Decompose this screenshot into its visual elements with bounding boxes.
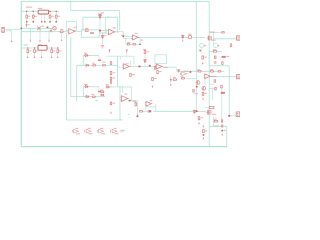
label R41 — [200, 117, 203, 118]
capacitor C6 — [214, 79, 216, 82]
junction zener node — [99, 30, 101, 32]
label R47 — [113, 103, 116, 104]
resistor R5 — [60, 31, 64, 33]
label RV1 — [41, 26, 44, 27]
junction net A2 — [47, 27, 49, 29]
gray text note3 — [128, 113, 130, 116]
diode D11 — [193, 110, 195, 114]
op-amp U6 — [120, 96, 129, 102]
resistor R13 — [49, 15, 51, 19]
transistor Q3 — [202, 86, 206, 90]
wire J1 lower lead — [6, 30, 12, 32]
wire rblock left — [208, 51, 210, 65]
wire meter drop — [201, 48, 203, 51]
wire bottom box right — [226, 126, 228, 146]
resistor R12 — [213, 51, 217, 53]
wire inner box bottom — [99, 32, 105, 34]
label U9A bottom — [76, 133, 80, 134]
wire r145 drop — [144, 55, 146, 59]
wire mixbox1 left — [82, 56, 84, 66]
label bottom teal text — [214, 125, 220, 126]
net arrow bus2 4 — [57, 56, 59, 58]
label D1 — [101, 12, 104, 13]
resistor network RN2 — [38, 45, 47, 50]
label rail71 — [183, 71, 189, 72]
junction opamp4 out — [139, 66, 141, 68]
mosfet Q1 — [207, 36, 212, 41]
wire bus2 drop 2 — [34, 48, 36, 56]
resistor R22 — [34, 49, 36, 53]
net arrow R5 — [61, 39, 63, 41]
wire bus2 drop 3 — [51, 48, 53, 56]
resistor R14 — [92, 65, 96, 66]
label Q1 top — [209, 32, 215, 33]
label R23 — [197, 69, 200, 70]
wire v2217 seg — [221, 89, 223, 122]
label R44 — [205, 130, 208, 131]
junction opamp2 out — [123, 35, 125, 37]
gray text note2 — [95, 99, 98, 102]
wire mix feed v76 — [76, 65, 78, 101]
net square bus1 1 — [26, 21, 28, 23]
wire mixbox1 top — [83, 55, 99, 57]
capacitor C1 — [50, 28, 52, 31]
wire opamp3 fb right — [139, 37, 141, 44]
wire mos1 source down — [212, 39, 214, 45]
junction supply — [108, 17, 109, 18]
wire opamp1 feedback loop — [66, 22, 76, 31]
wire v70 to mixer2 — [71, 96, 84, 98]
junction rblock — [228, 115, 230, 117]
wire opamp2 inn feed — [99, 32, 107, 34]
junction bus2 1 — [27, 47, 28, 48]
wire J1 to bus — [6, 28, 21, 30]
label R15 — [103, 62, 106, 63]
wire opamp3 in vertical — [122, 32, 124, 39]
junction bus1 4 — [56, 11, 57, 12]
wire supply drop V70 — [70, 1, 72, 10]
op-amp U4 — [122, 64, 130, 69]
meter M1 — [213, 43, 217, 47]
wire opamp2 in verticals — [106, 29, 108, 34]
junction q — [196, 86, 198, 88]
label U9C top — [100, 128, 103, 129]
wire v137 drop — [137, 101, 139, 116]
wire input drop 3 — [48, 28, 50, 40]
wire v205 seg — [204, 74, 206, 85]
resistor R10 — [221, 32, 224, 33]
wire rblock bottom — [209, 65, 229, 67]
label net out6 teal — [131, 100, 137, 101]
resistor R42 — [214, 120, 219, 122]
label U6 — [124, 94, 127, 95]
wire opamp4 out — [129, 65, 149, 67]
wire opamp8 fb top — [146, 106, 156, 108]
inverter U9D — [111, 129, 118, 133]
label R23 — [53, 50, 56, 51]
wire q area h84 — [209, 83, 214, 85]
net arrow x203 b — [203, 137, 205, 139]
wire left border — [20, 1, 22, 146]
label U9C bottom — [101, 133, 105, 134]
junction x203 — [203, 134, 205, 136]
label Y1 — [188, 34, 191, 35]
net square bus1 3 — [49, 21, 51, 23]
power flag PF1 — [109, 50, 111, 54]
wire opamp4 fb v — [130, 61, 132, 66]
diode D7 — [178, 69, 180, 73]
net arrow x203 a — [203, 125, 205, 127]
label U5 — [164, 67, 168, 68]
net arrow in1 — [30, 40, 32, 42]
label R35 — [204, 93, 207, 94]
wire opamp3 fb left — [125, 39, 127, 45]
resistor R19 — [110, 71, 112, 75]
net arrow x222 — [221, 134, 223, 136]
wire top border — [21, 0, 209, 2]
label R12 — [213, 49, 217, 50]
cap C4 — [98, 60, 101, 62]
label U3 — [135, 33, 138, 34]
label U8 — [150, 100, 153, 101]
junction bus2 3 — [51, 47, 52, 48]
label R5 — [60, 29, 63, 30]
label left block — [180, 76, 183, 77]
wire opamp7 out — [210, 76, 236, 78]
label R12 — [34, 16, 37, 17]
wire opamp6 out — [128, 100, 138, 102]
wire r111 lead — [110, 84, 112, 87]
junction bus2 4 — [57, 47, 58, 48]
resistor R28 — [110, 80, 111, 83]
wire bus1 — [21, 10, 59, 12]
zener diode D1 — [99, 15, 101, 19]
label U7 — [211, 76, 216, 77]
label R31 — [133, 101, 136, 102]
wire opamp1 out — [77, 30, 82, 32]
wire mos1 out to J2 — [213, 38, 236, 40]
label U9A top — [75, 128, 78, 129]
label R27 — [112, 78, 115, 79]
junction bus2 2 — [34, 47, 35, 48]
inverter U9A — [72, 129, 79, 133]
resistor R35 — [202, 92, 204, 96]
label R24 — [59, 50, 62, 51]
wire mos1 drain — [212, 32, 214, 39]
connector J3 — [236, 112, 240, 117]
resistor R43 — [221, 120, 222, 123]
resistor R33 — [173, 79, 177, 81]
wire J1 lower drop — [11, 31, 13, 40]
label R46 — [132, 74, 135, 75]
op-amp U7 — [204, 74, 212, 79]
diode D2 — [101, 35, 103, 39]
resistor R18 — [110, 61, 112, 65]
label Q4 — [212, 114, 216, 115]
label R11 — [28, 16, 31, 17]
net square bus1 b5 — [41, 21, 42, 22]
wire v2125 seg2 — [213, 117, 215, 126]
resistor R47 — [110, 102, 112, 106]
op-amp U2 — [107, 29, 115, 35]
label header text — [26, 7, 33, 8]
resistor R23 — [198, 71, 202, 73]
resistor R13 — [222, 62, 223, 65]
wire mix2 out rail — [110, 86, 132, 88]
wire mos2 top rail — [205, 107, 209, 109]
wire m2 chain — [200, 51, 202, 53]
wire opamp8 in — [143, 110, 148, 112]
wire mixbox2 top — [83, 86, 99, 88]
wire bottom border — [21, 146, 227, 148]
wire mixbox1 right — [98, 56, 100, 59]
wire opamp6 box l — [119, 86, 121, 120]
label R22 — [159, 71, 162, 72]
label RN1 — [38, 8, 43, 9]
resistor R9 — [133, 44, 137, 45]
resistor R38 — [202, 55, 204, 59]
inverter U9C — [97, 129, 104, 133]
label U9B top — [88, 128, 91, 129]
label U4 — [126, 63, 129, 64]
wire supply rail H10 — [71, 10, 120, 12]
resistor R22 — [157, 70, 159, 74]
resistor R46 — [130, 73, 132, 77]
wire box rail right v — [133, 56, 135, 64]
net arrow bus2 mid — [41, 56, 43, 58]
buzzer LS1 cross — [53, 27, 55, 29]
wire vertical net V196 — [195, 1, 197, 111]
relay coil K2 — [221, 92, 225, 94]
label RN2 — [38, 44, 41, 45]
junction rail111 — [196, 111, 198, 113]
resistor R20 — [144, 50, 146, 54]
label R42 — [214, 119, 217, 120]
resistor R24 — [210, 71, 214, 73]
resistor R37 — [221, 85, 223, 89]
resistor R23 — [51, 49, 53, 53]
junction bus1 1 — [26, 11, 27, 12]
junction opamp8 — [149, 111, 150, 112]
wire R5 drop — [61, 33, 63, 39]
wire opamp1 input — [21, 31, 68, 33]
label K1 — [226, 56, 229, 57]
transistor Q2 — [196, 81, 200, 85]
resistor R25 — [218, 71, 222, 72]
net square bus1 4 — [55, 21, 57, 23]
resistor R7 — [90, 32, 94, 33]
label D2 — [104, 35, 107, 36]
wire rblock to J3 — [229, 115, 236, 117]
net arrow M1 — [218, 45, 220, 47]
resistor R12 — [32, 15, 34, 19]
wire rblock top — [209, 50, 222, 52]
buzzer LS1 — [53, 27, 56, 30]
cap C5 — [98, 91, 101, 93]
label R21 — [29, 50, 32, 51]
wire big box left — [65, 33, 67, 120]
wire inner rail left down — [82, 17, 84, 31]
label D4 — [84, 53, 87, 54]
wire rail y71 — [177, 70, 224, 72]
wire q cluster feed — [186, 77, 196, 79]
wire opamp3 feed2 — [123, 37, 132, 39]
wire box rail top — [106, 55, 134, 57]
connector J2 — [237, 36, 240, 40]
wire opamp4 in2 — [118, 66, 122, 68]
wire bus2 box drop — [41, 50, 43, 56]
wire opamp2 out — [115, 31, 123, 33]
label R26 — [92, 94, 95, 95]
resistor R24 — [57, 49, 59, 53]
wire opamp5 out — [163, 66, 177, 68]
junction net A — [21, 28, 22, 29]
net square bus1 2 — [33, 21, 35, 23]
resistor R40 — [148, 111, 152, 113]
wire bus2 drop 1 — [27, 48, 29, 56]
capacitor C7 — [222, 125, 223, 128]
label R19 — [113, 72, 116, 73]
resistor R41 — [198, 116, 200, 120]
diode D8 — [84, 85, 89, 87]
wire mix rail y65 — [77, 64, 118, 66]
junction v137 — [137, 115, 139, 117]
resistor R27 — [110, 77, 112, 81]
wire PF2 stub — [126, 53, 128, 56]
connector J4 — [237, 75, 240, 79]
label U9B bottom — [88, 133, 92, 134]
wire input drop 1 — [30, 28, 32, 40]
wire rblock right down — [228, 66, 230, 116]
label R20b — [143, 49, 146, 50]
resistor R34 — [181, 78, 185, 80]
resistor R30 — [101, 94, 104, 95]
wire bus1 box drop a — [41, 14, 43, 22]
resistor R36 — [215, 87, 216, 90]
wire bottom box top — [209, 125, 227, 127]
label R33 — [173, 77, 176, 78]
net arrow R38 — [202, 62, 204, 64]
junction rail71 — [190, 71, 192, 73]
resistor R6 — [85, 30, 89, 32]
wire bus1 drop 4 — [55, 11, 57, 21]
ground GND1 — [101, 46, 104, 48]
label R32 — [154, 78, 157, 79]
net arrow R47 — [110, 112, 112, 114]
resistor R21 — [27, 49, 29, 53]
mosfet Q4 — [206, 110, 211, 115]
net arrow in3 — [48, 40, 50, 42]
resistor R14 — [55, 15, 57, 19]
junction bus1 3 — [49, 11, 50, 12]
resistor R26 — [92, 96, 96, 97]
resistor R11 — [230, 43, 232, 47]
wire v70 long — [70, 37, 72, 97]
wire long rail y111 — [154, 110, 207, 112]
diode D6 — [144, 59, 146, 63]
wire input drop 2 — [39, 28, 41, 40]
wire v131 drop — [131, 87, 133, 100]
label R29 — [100, 90, 103, 91]
wire opamp5 out to rail — [175, 67, 177, 71]
op-amp U1 — [68, 29, 76, 35]
net arrow R32 — [152, 85, 154, 87]
wire input net A — [21, 27, 57, 29]
inverter U9B — [85, 129, 92, 133]
junction x222 — [221, 130, 223, 132]
wire bus1 drop 3 — [49, 11, 51, 21]
resistor R29 — [100, 91, 104, 93]
junction bus1 2 — [33, 11, 34, 12]
junction y80 — [170, 79, 172, 81]
wire bus1 box drop b — [44, 14, 46, 22]
wire opamp6 box bottom — [120, 119, 123, 121]
wire buffer link — [187, 72, 191, 74]
wire opamp5 in — [149, 65, 156, 67]
label R20 — [146, 51, 149, 52]
diode D10 — [106, 86, 111, 88]
label R24 — [210, 69, 213, 70]
resistor R15 — [102, 65, 106, 66]
wire inner rail H17 — [83, 16, 118, 18]
junction opamp6 out — [129, 100, 131, 102]
label D10 — [106, 84, 109, 85]
label U1 — [74, 27, 77, 28]
resistor R44 — [203, 129, 205, 133]
op-amp U8 — [145, 101, 153, 106]
wire opamp4 box left — [117, 56, 119, 88]
diode D9 — [85, 95, 90, 97]
net arrow R41 — [198, 122, 200, 124]
wire rail corner down — [119, 11, 121, 30]
varistor RV1 — [37, 27, 40, 31]
led D12 — [26, 23, 28, 27]
label R38 — [204, 57, 207, 58]
net arrow J1 — [11, 40, 13, 42]
buffer U10 — [180, 72, 187, 76]
label R6 — [85, 28, 88, 29]
wire bus2 drop 4 — [57, 48, 59, 56]
label R8 — [127, 42, 130, 43]
net arrow R35 — [202, 98, 204, 100]
wire mixbox2 left — [82, 87, 84, 97]
resistor network RN1 — [38, 10, 48, 14]
net arrow bus2 2 — [34, 56, 36, 58]
wire mos1 top rail — [209, 31, 224, 33]
wire r145 drop2 — [144, 64, 146, 66]
net arrow bus2 3 — [51, 56, 53, 58]
label net long — [141, 40, 144, 41]
wire bus1 drop 2 — [32, 11, 34, 21]
label U2 — [113, 27, 116, 28]
label R13 — [51, 16, 54, 17]
label R14 — [92, 63, 95, 64]
resistor R11 — [26, 15, 28, 19]
wire right vertical bus — [208, 1, 210, 146]
wire v2125 seg — [212, 88, 214, 101]
label q cluster — [194, 93, 198, 94]
wire mixbox2 right — [98, 87, 100, 91]
wire zener drop — [99, 11, 101, 31]
resistor R31 — [135, 102, 137, 106]
wire opamp2 input box — [81, 30, 99, 37]
wire opamp4 box top v — [120, 56, 122, 60]
label U9D bottom — [114, 133, 118, 134]
label x222 — [224, 130, 226, 131]
net arrow D3 — [182, 40, 184, 42]
label D12 — [28, 24, 30, 25]
wire opamp3 feeds — [123, 35, 132, 37]
